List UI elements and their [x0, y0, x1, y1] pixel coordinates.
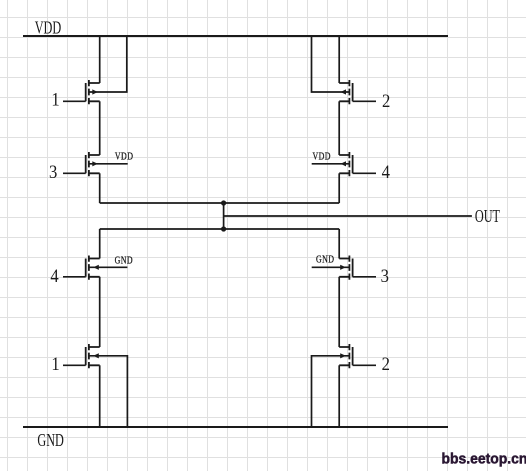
- svg-text:3: 3: [49, 161, 58, 182]
- svg-text:VDD: VDD: [115, 150, 133, 163]
- svg-text:GND: GND: [316, 253, 334, 266]
- svg-text:4: 4: [50, 265, 59, 286]
- svg-text:3: 3: [381, 265, 390, 286]
- svg-text:GND: GND: [115, 254, 133, 267]
- svg-text:OUT: OUT: [475, 207, 501, 227]
- svg-text:VDD: VDD: [313, 150, 331, 163]
- svg-text:bbs.eetop.cn: bbs.eetop.cn: [442, 451, 526, 468]
- svg-text:2: 2: [382, 353, 390, 374]
- svg-text:2: 2: [382, 90, 390, 111]
- svg-text:GND: GND: [37, 431, 63, 451]
- svg-text:VDD: VDD: [35, 18, 61, 38]
- svg-text:4: 4: [382, 161, 391, 182]
- svg-text:1: 1: [51, 89, 59, 110]
- svg-text:1: 1: [51, 353, 59, 374]
